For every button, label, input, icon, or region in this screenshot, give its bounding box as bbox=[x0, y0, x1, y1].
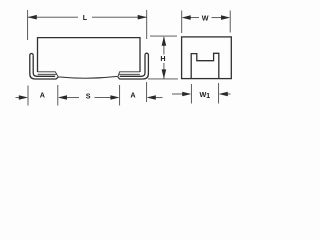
left body recess lines bbox=[38, 72, 59, 77]
W1 left tail bbox=[172, 93, 183, 95]
W left arrow bbox=[182, 15, 191, 20]
L dimension line bbox=[28, 16, 78, 18]
A right tail bbox=[155, 97, 163, 99]
svg-text:S: S bbox=[86, 92, 91, 101]
H dimension line bbox=[163, 37, 165, 55]
W1 right arrow (points left) bbox=[219, 92, 228, 97]
L right extension line bbox=[146, 10, 148, 39]
dimension lines bbox=[16, 10, 231, 106]
W1 right tail bbox=[227, 93, 231, 95]
left lead inner line bbox=[33, 55, 55, 76]
S left arrow bbox=[58, 95, 67, 100]
right lead inner line bbox=[120, 55, 145, 76]
end view lead channel bbox=[191, 53, 219, 78]
W extension lines bbox=[181, 11, 183, 34]
svg-text:W: W bbox=[202, 14, 209, 23]
H top extension line bbox=[150, 35, 177, 37]
body bottom mid line bbox=[58, 76, 117, 78]
A left arrow (points right) bbox=[19, 95, 28, 100]
L left arrow bbox=[28, 15, 37, 20]
H bottom extension line bbox=[148, 78, 178, 80]
right body recess lines bbox=[118, 72, 140, 77]
svg-text:H: H bbox=[160, 54, 165, 63]
labels bbox=[40, 13, 210, 100]
A/S extension lines bbox=[27, 86, 29, 106]
svg-text:A: A bbox=[40, 90, 45, 99]
end view outer case bbox=[182, 37, 232, 79]
body outline (side view) bbox=[38, 38, 141, 72]
H down arrow bbox=[162, 69, 167, 79]
svg-text:L: L bbox=[83, 13, 88, 22]
left lead outer bbox=[30, 54, 58, 80]
H up arrow bbox=[162, 36, 167, 46]
W right arrow bbox=[221, 15, 230, 20]
S dimension line bbox=[66, 97, 79, 99]
L left extension line bbox=[27, 10, 29, 40]
svg-text:1: 1 bbox=[206, 91, 210, 100]
S right arrow bbox=[110, 95, 119, 100]
W1 extension lines bbox=[190, 84, 192, 104]
W dimension line bbox=[191, 17, 200, 19]
end view (right figure) bbox=[182, 37, 232, 79]
arrowheads bbox=[19, 15, 230, 100]
L right arrow bbox=[138, 15, 147, 20]
right lead outer bbox=[118, 53, 149, 79]
W1 left arrow (points right) bbox=[182, 92, 191, 97]
svg-text:A: A bbox=[130, 90, 135, 99]
A right arrow (points left) bbox=[147, 95, 156, 100]
A left tail bbox=[16, 97, 20, 99]
